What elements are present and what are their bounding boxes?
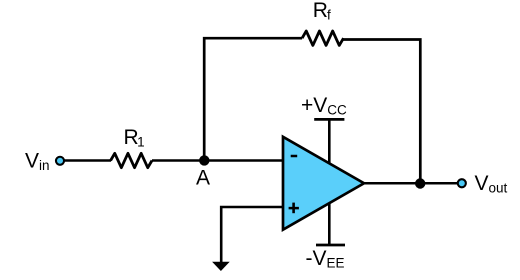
op-amp inverting input marker (-)	[291, 155, 298, 158]
resistor Rf	[302, 31, 343, 45]
Vin terminal circle	[56, 157, 64, 165]
resistor R1	[111, 153, 152, 167]
wire: non-inverting input to ground	[221, 207, 284, 263]
+VCC bar	[314, 118, 344, 121]
wire: R1 to op-amp inverting input (through node A)	[152, 159, 284, 162]
output node (junction dot)	[415, 178, 425, 188]
Vout terminal circle	[458, 179, 466, 187]
wire: Rf to output riser	[343, 40, 421, 184]
supply rail vertical line (+VCC to -VEE, behind op-amp)	[328, 119, 331, 245]
wire: op-amp output to Vout terminal	[364, 182, 457, 185]
wire: Vin terminal to resistor R1	[64, 159, 111, 162]
-VEE bar	[316, 244, 345, 247]
wire: feedback riser from node A up	[204, 38, 302, 160]
node A (junction dot)	[199, 155, 209, 165]
svg-text:A: A	[196, 167, 210, 190]
op-amp U1 triangle	[283, 137, 364, 230]
ground arrowhead	[212, 262, 230, 271]
op-amp non-inverting input marker (+)	[289, 207, 299, 210]
